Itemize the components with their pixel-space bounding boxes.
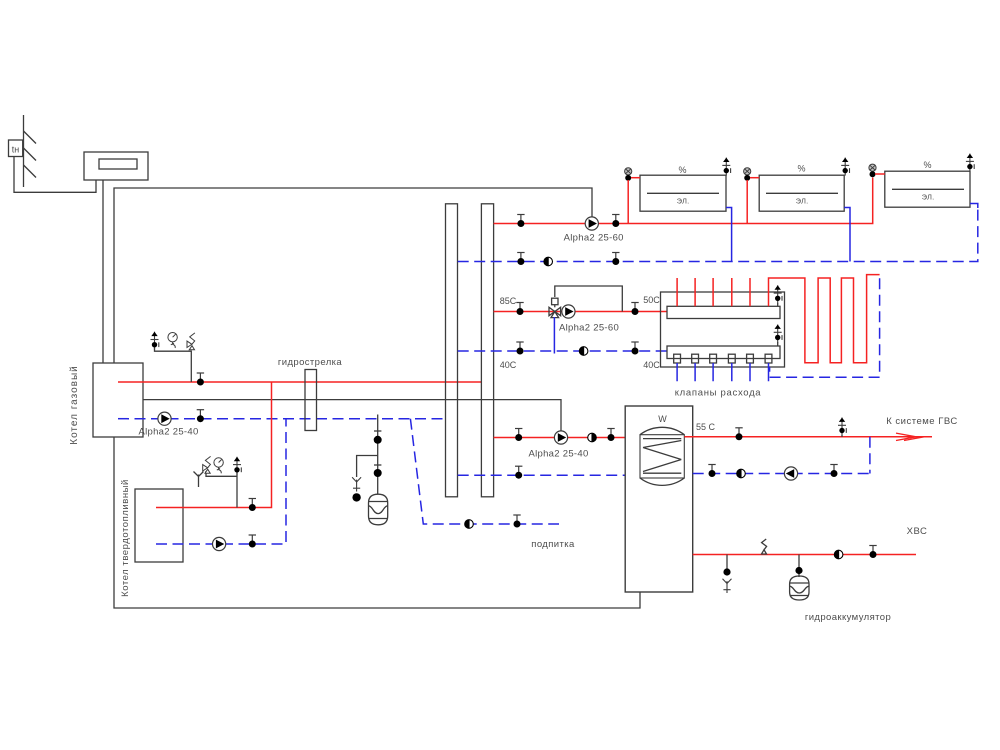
- safety group manifold at solid fuel boiler: [206, 470, 237, 508]
- svg-text:гидроаккумулятор: гидроаккумулятор: [805, 612, 891, 623]
- svg-text:40C: 40C: [643, 360, 660, 370]
- wire mixing valve to return: [553, 317, 555, 354]
- wire circuit2 supply red: [494, 311, 667, 313]
- wire boiler return blue: [118, 418, 446, 420]
- air vent R3: [966, 154, 974, 172]
- valve V2 on boiler return: [197, 410, 204, 423]
- wire recirculation blue: [693, 473, 870, 475]
- check valve CV5 recirc: [737, 469, 746, 478]
- wire recirculation drop: [869, 437, 871, 474]
- svg-text:К системе ГВС: К системе ГВС: [886, 416, 958, 427]
- valve V4 on solid fuel return: [249, 535, 256, 548]
- check valve CV4 make-up: [465, 520, 474, 529]
- arrow GVS: [896, 433, 924, 440]
- valve V14: [631, 303, 638, 316]
- wire R1 return: [726, 208, 732, 262]
- air vent A2: [233, 457, 241, 475]
- valve V19: [515, 466, 522, 479]
- thermo valve R1: [625, 168, 640, 224]
- wire frame top / control bus to pump P2: [114, 188, 592, 363]
- svg-text:ХВС: ХВС: [907, 526, 928, 537]
- solid fuel boiler K2: [120, 479, 183, 597]
- svg-text:ЭЛ.: ЭЛ.: [922, 193, 935, 202]
- svg-text:подпитка: подпитка: [531, 539, 575, 550]
- svg-text:Alpha2 25-40: Alpha2 25-40: [138, 427, 198, 438]
- flow valves on return bar: [674, 354, 772, 363]
- expansion tank: [369, 494, 388, 525]
- wire control bus to pump P5: [143, 400, 561, 431]
- wire floor return drops: [677, 363, 768, 381]
- air vent R2: [841, 158, 849, 176]
- wire from sensor to controller: [14, 157, 96, 193]
- wire cold water line: [693, 554, 916, 556]
- air vent A1: [151, 332, 159, 350]
- radiator R3: [885, 160, 970, 207]
- valve V9: [517, 215, 524, 228]
- wire R2 return: [844, 208, 850, 262]
- valve V10: [612, 215, 619, 228]
- supply manifold column: [446, 204, 458, 497]
- svg-text:55 C: 55 C: [696, 422, 716, 432]
- svg-text:%: %: [678, 165, 686, 175]
- valve V7 drain dot: [352, 493, 360, 501]
- controller U1: [84, 152, 148, 180]
- valve V21 recirc: [708, 465, 715, 478]
- manometer M2: [214, 458, 223, 474]
- wire solid fuel boiler return blue: [156, 419, 286, 544]
- valve V8 make-up: [513, 515, 520, 528]
- wire solid fuel boiler supply red: [156, 382, 272, 508]
- valve V24 accumulator dot: [795, 567, 802, 574]
- valve V23 drain dot: [723, 568, 730, 575]
- valve V15: [516, 342, 523, 355]
- wire circuit3 return blue: [458, 474, 626, 476]
- thermo valve R2: [744, 168, 760, 224]
- wire accumulator branch: [798, 555, 800, 578]
- valve V20 DHW out: [735, 428, 742, 441]
- svg-text:гидрострелка: гидрострелка: [278, 357, 343, 368]
- svg-text:Alpha2 25-60: Alpha2 25-60: [559, 323, 619, 334]
- wire controller to gas boiler: [102, 180, 104, 363]
- wire floor loop return: [770, 278, 880, 377]
- svg-text:Котел газовый: Котел газовый: [69, 365, 80, 444]
- wire bypass circuit2: [555, 286, 623, 312]
- check valve CV3: [588, 433, 597, 442]
- hydraulic separator: [278, 357, 343, 431]
- safety group manifold at gas boiler: [155, 344, 192, 382]
- expansion tank stem: [374, 415, 381, 495]
- valve V25 cold: [869, 546, 876, 559]
- valve V17: [515, 429, 522, 442]
- drain D2: [352, 477, 361, 491]
- air vent R1: [722, 158, 730, 176]
- check valve CV2: [579, 347, 588, 356]
- outdoor sensor tH box: [9, 140, 23, 157]
- valve V5 expansion upper: [374, 436, 382, 444]
- svg-text:tн: tн: [12, 145, 20, 155]
- thermo valve R3: [869, 164, 885, 177]
- make-up water line: [410, 419, 559, 524]
- pump P4 solid fuel: [213, 537, 226, 550]
- svg-text:%: %: [923, 160, 931, 170]
- wire frame left-bottom to DHW tank: [114, 437, 640, 608]
- svg-text:50C: 50C: [643, 295, 660, 305]
- valve V11: [517, 253, 524, 266]
- svg-text:Котел твердотопливный: Котел твердотопливный: [120, 479, 131, 597]
- air vent manifold upper: [774, 285, 782, 306]
- return manifold column: [481, 204, 493, 497]
- drain D3: [723, 579, 732, 593]
- wire circuit2 return blue: [458, 350, 667, 352]
- valve V13: [516, 303, 523, 316]
- safety valve SV1: [187, 333, 195, 350]
- pump P2 Alpha2 25-60: [564, 217, 624, 244]
- svg-text:ЭЛ.: ЭЛ.: [677, 197, 690, 206]
- pump P1 Alpha2 25-40: [138, 412, 198, 437]
- pump P3 Alpha2 25-60: [559, 305, 619, 334]
- svg-text:клапаны расхода: клапаны расхода: [675, 388, 762, 399]
- DHW tank W: [625, 406, 693, 592]
- valve V22 recirc: [830, 465, 837, 478]
- svg-text:W: W: [658, 414, 667, 424]
- valve V3 on solid fuel supply: [249, 499, 256, 512]
- check valve CV6 cold: [834, 550, 843, 559]
- floor heating manifold cabinet: [661, 292, 785, 399]
- wire drain branch cold: [726, 555, 728, 569]
- drain D1: [194, 472, 204, 488]
- wire circuit1 return blue: [458, 205, 978, 262]
- wire drain branch: [357, 456, 378, 478]
- valve V6 expansion lower: [374, 469, 382, 477]
- wire floor supply risers: [677, 278, 750, 306]
- air vent manifold lower: [774, 325, 782, 347]
- svg-text:Alpha2 25-60: Alpha2 25-60: [564, 233, 624, 244]
- svg-text:Alpha2 25-40: Alpha2 25-40: [528, 449, 588, 460]
- safety valve SV2: [203, 456, 211, 473]
- safety valve SV3 cold water: [762, 539, 767, 554]
- pump P5 Alpha2 25-40: [528, 431, 588, 460]
- svg-text:ЭЛ.: ЭЛ.: [796, 197, 809, 206]
- mixing valve MV1: [549, 298, 561, 317]
- svg-text:85C: 85C: [500, 296, 517, 306]
- valve V16: [631, 342, 638, 355]
- wire floor loop serpentine supply: [769, 275, 880, 363]
- wire boiler supply red: [118, 381, 482, 383]
- air vent A3 DHW: [838, 418, 846, 438]
- radiator R1: [640, 165, 726, 211]
- check valve CV1: [544, 257, 553, 266]
- wire circuit1 supply red: [494, 178, 873, 224]
- svg-text:%: %: [797, 164, 805, 174]
- wire R3 return: [970, 204, 978, 209]
- valve V1 on boiler supply: [197, 373, 204, 386]
- svg-text:40C: 40C: [500, 360, 517, 370]
- manometer M1: [168, 333, 177, 349]
- wall mount line with hatches: [24, 115, 37, 187]
- gas boiler K1: [69, 363, 143, 445]
- radiator R2: [759, 164, 844, 212]
- valve V18: [607, 429, 614, 442]
- pump P6 recirculation: [784, 467, 797, 480]
- valve V12: [612, 253, 619, 266]
- wire circuit3 supply red: [494, 437, 626, 439]
- wire DHW hot supply red: [684, 436, 932, 438]
- hydro accumulator: [790, 576, 892, 623]
